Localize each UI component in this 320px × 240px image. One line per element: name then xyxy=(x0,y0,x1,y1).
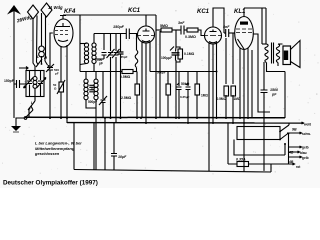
svg-text:Deutscher Olympiakoffer (1997): Deutscher Olympiakoffer (1997) xyxy=(3,179,98,186)
tube U1 KF4 xyxy=(54,15,73,47)
svg-text:L: L xyxy=(31,101,33,105)
svg-text:150pF: 150pF xyxy=(113,25,125,29)
variable capacitor 500pF xyxy=(46,64,54,118)
svg-text:L bei Langwellen-, W bei: L bei Langwellen-, W bei xyxy=(35,141,82,146)
switch main with ground xyxy=(11,106,33,132)
tube U1 pins xyxy=(50,33,67,123)
svg-text:0.5MΩ: 0.5MΩ xyxy=(120,75,131,79)
svg-text:1MΩ: 1MΩ xyxy=(201,94,208,98)
coil in gang box xyxy=(33,71,37,97)
chassis bus 1 xyxy=(25,116,285,119)
resistor 0.1M vertical xyxy=(176,47,183,118)
tube U3 pins xyxy=(209,42,217,123)
capacitor 150pF antenna xyxy=(14,80,26,88)
tube U2 KC1 xyxy=(138,15,155,43)
svg-text:0.5MΩ: 0.5MΩ xyxy=(217,97,227,101)
capacitor 1500pF xyxy=(253,34,270,112)
wire anode bus top xyxy=(63,14,156,16)
svg-text:M: M xyxy=(44,56,48,60)
fuse line xyxy=(228,123,295,165)
resistor 1M vertical xyxy=(195,72,200,119)
tube U4 pins xyxy=(240,48,248,171)
wire xyxy=(45,16,47,58)
capacitor 3nF xyxy=(176,26,187,35)
wire drop right xyxy=(209,118,271,172)
svg-text:KL1: KL1 xyxy=(234,9,246,15)
terminal weiss xyxy=(296,122,304,124)
bottom rail xyxy=(74,170,271,173)
svg-text:100μμF: 100μμF xyxy=(161,56,172,60)
resistor 0.3M xyxy=(187,28,205,36)
wire screen KL1 xyxy=(262,8,266,44)
oscillator coil 2b xyxy=(94,72,98,170)
svg-text:rot: rot xyxy=(296,165,301,169)
scan noise speckle xyxy=(2,3,319,175)
svg-text:weiß: weiß xyxy=(303,123,311,127)
resistor 50k vertical xyxy=(166,72,171,119)
junction dots bus xyxy=(49,71,249,125)
wire battery switch xyxy=(288,134,290,165)
svg-text:5MΩ: 5MΩ xyxy=(160,24,168,28)
variable capacitor gang 1 xyxy=(24,71,34,97)
svg-text:5nF: 5nF xyxy=(223,25,230,29)
capacitor 100pF xyxy=(96,53,107,60)
antenna xyxy=(7,5,21,118)
switch L lower xyxy=(28,97,35,119)
switch S1b xyxy=(279,133,289,141)
AVC line xyxy=(80,71,122,73)
svg-text:0.1MΩ: 0.1MΩ xyxy=(184,52,195,56)
svg-text:pF: pF xyxy=(55,72,59,76)
svg-text:0.35A: 0.35A xyxy=(236,158,246,162)
svg-text:KC1: KC1 xyxy=(197,9,210,15)
wire AVC 3 xyxy=(188,71,217,73)
wire output return xyxy=(263,112,265,171)
svg-text:pF: pF xyxy=(271,93,277,97)
wire anode KL1 xyxy=(244,8,262,44)
output box xyxy=(251,50,253,118)
svg-text:2.5MΩ: 2.5MΩ xyxy=(121,96,132,100)
resistor 5M xyxy=(156,28,176,32)
IF transformer 1 box xyxy=(79,15,81,72)
oscillator coil 2a xyxy=(84,72,96,109)
capacitor padder a xyxy=(89,85,94,92)
resistor 0.5M xyxy=(122,70,137,74)
switch S1a xyxy=(279,123,289,132)
speaker LS xyxy=(283,41,300,119)
svg-text:Ω: Ω xyxy=(54,87,57,91)
svg-text:gelb: gelb xyxy=(302,146,309,150)
output transformer T1 xyxy=(262,43,285,72)
capacitor C bypass b xyxy=(186,72,191,124)
terminal gelb 1 xyxy=(289,146,302,148)
IF coil 1a xyxy=(80,43,89,65)
resistor 2.5M vertical xyxy=(135,72,140,119)
coil L2 loop (diamond) xyxy=(41,3,52,17)
wire drop left xyxy=(73,123,75,170)
variable resistor 50 xyxy=(57,80,65,118)
oscillator coupling coil xyxy=(39,13,45,64)
capacitor 35pF xyxy=(118,34,124,119)
svg-text:1500: 1500 xyxy=(270,88,278,92)
capacitor 100pF grid xyxy=(170,47,180,61)
battery box xyxy=(237,127,280,140)
variable capacitor gang 2 xyxy=(37,71,47,97)
wire grid junction xyxy=(175,30,177,47)
coil L1 loop (diamond) xyxy=(28,5,39,19)
band switch L M xyxy=(19,58,50,70)
fuse 0.35A xyxy=(237,162,249,167)
trimmer 500pF osc xyxy=(99,72,107,119)
capacitor 5nF xyxy=(224,29,235,37)
svg-text:0.3MΩ: 0.3MΩ xyxy=(185,35,196,39)
tuning gang box xyxy=(26,71,44,97)
wire screen xyxy=(159,31,161,118)
wire drop 2 xyxy=(93,123,95,170)
wire drop 3 xyxy=(104,118,106,170)
capacitor 10nF xyxy=(111,123,117,170)
resistor vertical at 233 xyxy=(231,33,236,123)
resistor vertical at 226 xyxy=(224,38,229,118)
tube U2 pins xyxy=(142,42,150,124)
wire xyxy=(33,19,35,71)
svg-text:11 Wdg: 11 Wdg xyxy=(48,5,63,10)
svg-text:gelb: gelb xyxy=(302,156,309,160)
wire diamond1 tap xyxy=(37,16,39,65)
tube U4 KL1 xyxy=(235,8,254,50)
trimmer capacitor 2 xyxy=(112,34,120,124)
svg-text:blau: blau xyxy=(300,151,307,155)
svg-text:4B: 4B xyxy=(288,160,294,164)
svg-text:schw.: schw. xyxy=(302,132,311,136)
wire battery minus row xyxy=(234,140,286,156)
svg-text:KC1: KC1 xyxy=(128,8,141,14)
terminal blau xyxy=(289,151,300,153)
wire AVC 2 xyxy=(150,71,188,73)
tube U3 KC1 xyxy=(205,8,225,44)
capacitor C bypass a xyxy=(177,72,182,119)
bus 2 xyxy=(67,122,304,124)
svg-text:500pF: 500pF xyxy=(88,100,97,104)
svg-text:3nF: 3nF xyxy=(178,21,185,25)
svg-text:KF4: KF4 xyxy=(64,9,76,15)
IF coil 1b xyxy=(92,42,96,72)
trimmer capacitor xyxy=(107,34,115,119)
svg-text:150pF: 150pF xyxy=(4,79,14,83)
svg-text:9B: 9B xyxy=(292,128,297,132)
svg-text:pF: pF xyxy=(99,62,103,66)
svg-text:10μF: 10μF xyxy=(118,155,127,159)
terminal schw xyxy=(287,132,302,134)
grid wire to KC1 xyxy=(94,34,126,51)
svg-text:35pF: 35pF xyxy=(121,55,128,59)
svg-text:geschlossen: geschlossen xyxy=(34,151,60,156)
choke / grid leak squiggle xyxy=(135,34,138,72)
capacitor 150pF coupling xyxy=(126,29,137,40)
terminal gelb 2 xyxy=(289,156,302,158)
